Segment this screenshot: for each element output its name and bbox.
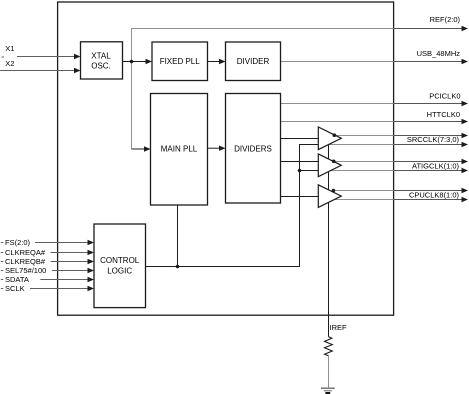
wire ATIGCLK true output (gray) <box>333 161 393 163</box>
wire ATIGCLK complement output (gray) <box>329 170 394 172</box>
svg-text:ATIGCLK(1:0): ATIGCLK(1:0) <box>412 161 459 170</box>
wire resistor to ground (gray) <box>328 356 330 388</box>
wire X1 input <box>17 56 75 58</box>
wire HTTCLK0 external stub <box>394 121 462 123</box>
block XTAL OSC. <box>81 42 123 79</box>
wire USB_48MHz internal (gray) <box>281 61 394 63</box>
wire bias chain through buffers to IREF resistor <box>328 145 330 337</box>
svg-text:CLKREQB#: CLKREQB# <box>5 257 46 266</box>
wire control trunk to buffer1 second input <box>146 145 319 267</box>
wire REF routing (gray) from XTAL node up and across <box>132 29 394 62</box>
wire CLKREQA# input <box>1 252 3 254</box>
svg-text:REF(2:0): REF(2:0) <box>430 15 461 24</box>
wire DIVIDERS to buffer2 input <box>281 161 319 163</box>
wire X2 input <box>0 70 75 72</box>
svg-text:PCICLK0: PCICLK0 <box>429 92 460 101</box>
ground <box>321 387 335 389</box>
wire FIXED PLL to DIVIDER <box>208 61 221 63</box>
wire CLKREQB# input <box>1 261 3 263</box>
svg-text:OSC.: OSC. <box>91 61 111 70</box>
wire PCICLK0 internal (gray) <box>281 103 394 105</box>
buffer U3 CPUCLK output driver <box>318 185 341 208</box>
wire XTAL OSC to FIXED PLL <box>123 61 147 63</box>
svg-text:CLKREQA#: CLKREQA# <box>5 248 46 257</box>
wire MAIN PLL to DIVIDERS <box>208 147 221 149</box>
junction node trunk tap <box>298 169 302 173</box>
chip outline big box <box>58 2 394 315</box>
junction node on control trunk <box>176 265 180 269</box>
wire into MAIN PLL <box>132 148 146 150</box>
wire USB_48MHz external stub <box>394 61 462 63</box>
buffer U2 ATIGCLK output driver <box>318 154 341 177</box>
wire trunk tap to buffer2 second input <box>300 170 319 172</box>
wire X1 tick <box>2 56 5 58</box>
svg-text:CPUCLK8(1:0): CPUCLK8(1:0) <box>409 190 460 199</box>
junction node at XTAL output <box>130 60 134 64</box>
svg-text:LOGIC: LOGIC <box>107 267 132 276</box>
wire SRCCLK complement output (gray) <box>329 144 394 146</box>
svg-text:IREF: IREF <box>330 323 348 332</box>
svg-text:SEL75#/100: SEL75#/100 <box>5 266 46 275</box>
wire CPUCLK complement output (gray) <box>329 199 394 201</box>
svg-text:FS(2:0): FS(2:0) <box>5 238 31 247</box>
wire SDATA input <box>1 279 3 281</box>
wire SEL75#/100 input <box>1 270 3 272</box>
wire control logic to MAIN PLL feedback <box>177 205 179 267</box>
svg-text:X2: X2 <box>5 59 14 68</box>
wire DIVIDERS to buffer1 input <box>281 138 319 140</box>
svg-text:MAIN PLL: MAIN PLL <box>161 144 198 153</box>
svg-text:SCLK: SCLK <box>5 284 25 293</box>
svg-text:SDATA: SDATA <box>5 275 29 284</box>
wire REF external stub <box>394 28 462 30</box>
svg-text:CONTROL: CONTROL <box>100 256 140 265</box>
svg-text:X1: X1 <box>5 44 14 53</box>
block DIVIDER <box>226 42 281 81</box>
block DIVIDERS <box>226 94 281 204</box>
block MAIN PLL <box>151 94 208 206</box>
svg-text:SRCCLK(7:3,0): SRCCLK(7:3,0) <box>407 135 460 144</box>
svg-text:DIVIDER: DIVIDER <box>237 57 270 66</box>
wire DIVIDERS to buffer3 input <box>281 196 319 198</box>
wire PCICLK0 external stub <box>394 103 462 105</box>
resistor R IREF <box>325 337 333 356</box>
buffer U1 SRCCLK output driver <box>318 127 341 150</box>
wire HTTCLK0 internal (gray) <box>281 121 394 123</box>
wire CPUCLK true output (gray) <box>333 190 393 192</box>
block CONTROL LOGIC <box>94 224 146 308</box>
svg-text:XTAL: XTAL <box>91 52 111 61</box>
wire SRCCLK true output (gray) <box>333 135 393 137</box>
svg-text:DIVIDERS: DIVIDERS <box>234 144 272 153</box>
svg-text:USB_48MHz: USB_48MHz <box>417 49 461 58</box>
svg-text:HTTCLK0: HTTCLK0 <box>427 110 460 119</box>
wire XTAL to MAIN PLL branch (gray vertical) <box>131 62 133 150</box>
svg-text:FIXED PLL: FIXED PLL <box>160 57 201 66</box>
block FIXED PLL <box>152 42 208 81</box>
wire FS(2:0) input <box>1 242 3 244</box>
wire SCLK input <box>1 288 3 290</box>
